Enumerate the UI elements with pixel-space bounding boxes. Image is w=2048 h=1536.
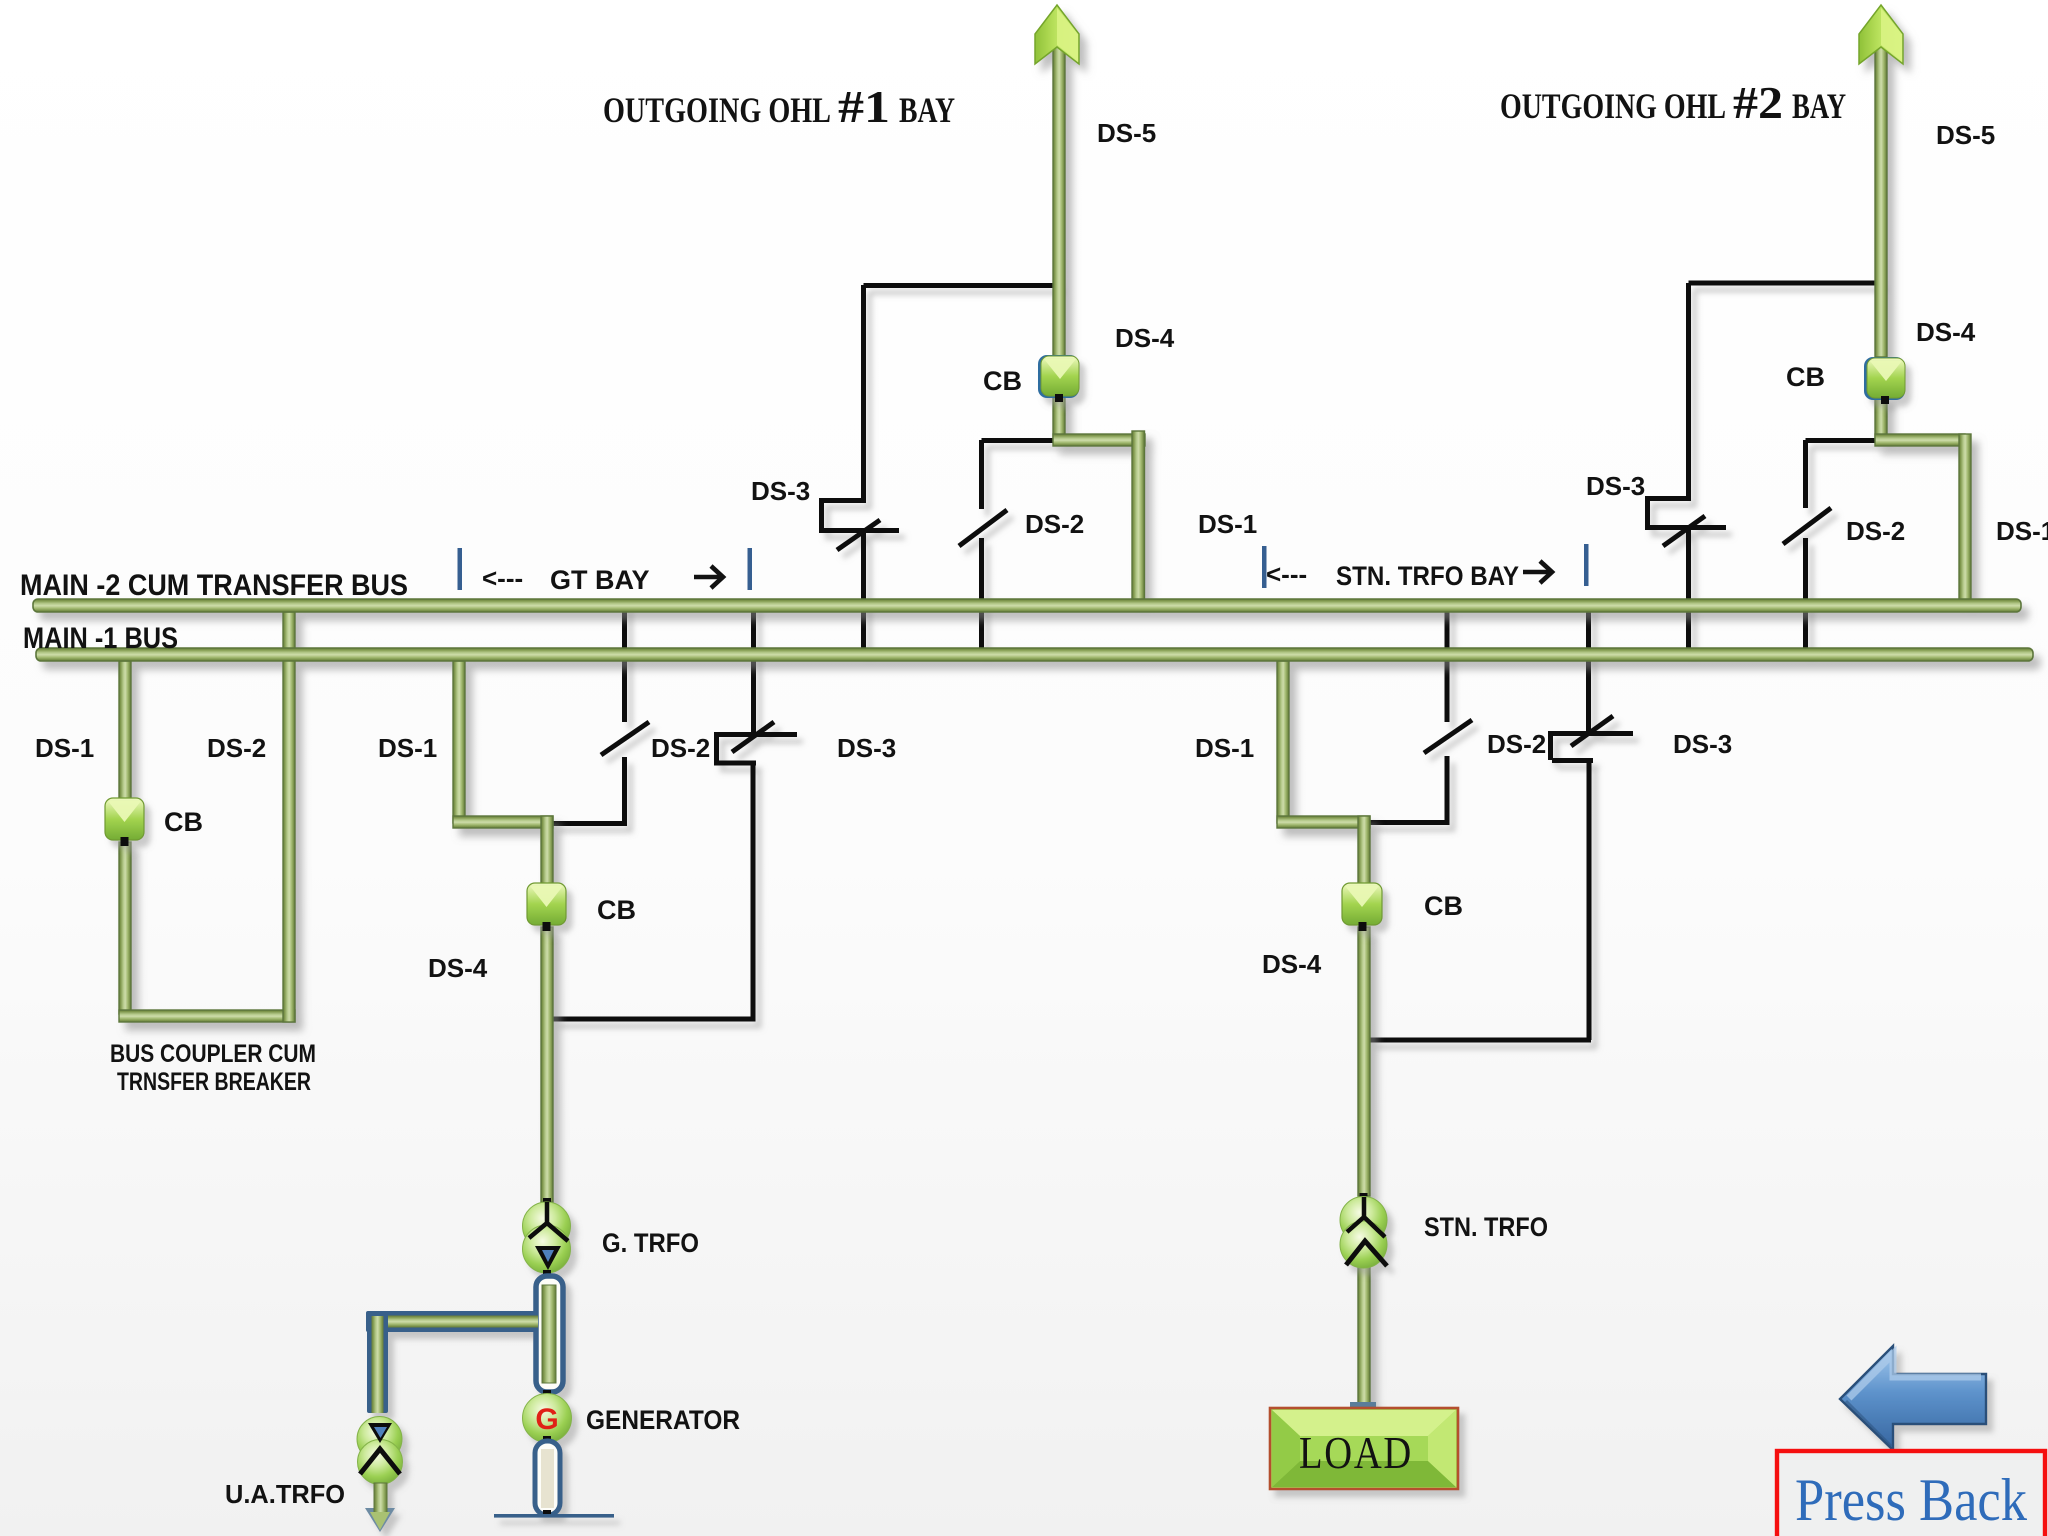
svg-text:MAIN -1 BUS: MAIN -1 BUS	[23, 622, 178, 655]
wire elbow (OHL no.2 bay)	[1875, 434, 1965, 446]
wire DS-1 riser (GT bay)	[453, 661, 465, 823]
svg-text:#1: #1	[838, 81, 890, 132]
svg-text:CB: CB	[1424, 891, 1463, 921]
node LOAD connection	[1350, 1402, 1376, 1409]
svg-text:U.A.TRFO: U.A.TRFO	[225, 1479, 345, 1509]
title OUTGOING OHL no.1 BAY	[603, 81, 955, 132]
wire bottom link (bus coupler bay)	[119, 1010, 295, 1022]
generator earth line	[494, 1514, 614, 1518]
svg-text:Press Back: Press Back	[1795, 1467, 2027, 1533]
disconnector DS-2 (OHL no.2 bay)	[1783, 440, 1877, 651]
wire elbow (OHL no.1 bay)	[1053, 434, 1145, 446]
svg-text:OUTGOING OHL: OUTGOING OHL	[603, 90, 831, 130]
wire elbow (GT bay)	[453, 816, 553, 828]
wire DS-1 riser (bus coupler bay)	[119, 661, 131, 801]
svg-text:DS-1: DS-1	[35, 733, 94, 763]
wire OHL line shaft (OHL no.2 bay)	[1875, 46, 1887, 357]
svg-text:BUS COUPLER CUM: BUS COUPLER CUM	[110, 1040, 316, 1068]
label STN TRFO bay arrow right	[1523, 561, 1552, 583]
svg-text:DS-4: DS-4	[1115, 323, 1175, 353]
circuit breaker CB (STN TRFO bay)	[1342, 883, 1382, 931]
svg-text:DS-1: DS-1	[378, 733, 437, 763]
wire DS-1 riser (OHL no.2 bay)	[1959, 434, 1971, 606]
svg-text:STN. TRFO: STN. TRFO	[1424, 1212, 1548, 1242]
svg-text:DS-2: DS-2	[1025, 509, 1084, 539]
circuit breaker CB (bus coupler bay)	[105, 798, 144, 846]
svg-text:DS-3: DS-3	[1586, 471, 1645, 501]
wire U.A. tap vertical	[367, 1311, 388, 1413]
arrow press back (blue block arrow)	[1840, 1346, 1986, 1450]
svg-text:LOAD: LOAD	[1299, 1428, 1413, 1478]
svg-text:DS-5: DS-5	[1097, 118, 1156, 148]
circuit breaker CB (GT bay)	[527, 883, 566, 931]
svg-text:DS-1: DS-1	[1195, 733, 1254, 763]
wire transformer to LOAD (STN TRFO bay)	[1358, 1266, 1370, 1410]
svg-text:<---: <---	[482, 563, 523, 593]
LOAD box	[1270, 1408, 1458, 1489]
svg-text:DS-3: DS-3	[1673, 729, 1732, 759]
node GT bay right marker	[748, 548, 753, 590]
svg-text:DS-4: DS-4	[1262, 949, 1322, 979]
wire below CB (OHL no.1 bay)	[1053, 396, 1065, 441]
wire DS-4 below CB (STN TRFO bay)	[1358, 927, 1370, 1196]
wire below CB (OHL no.2 bay)	[1875, 396, 1887, 439]
svg-text:DS-2: DS-2	[651, 733, 710, 763]
svg-text:DS-1: DS-1	[1996, 516, 2048, 546]
wire OHL line shaft (OHL no.1 bay)	[1053, 46, 1065, 357]
arrowhead DS-5 (OHL no.1 bay)	[1035, 5, 1079, 64]
generator neutral capsule	[535, 1436, 560, 1517]
transformer U.A.TRFO secondary winding	[358, 1423, 403, 1485]
svg-text:DS-4: DS-4	[428, 953, 488, 983]
bus MAIN-2 CUM TRANSFER BUS	[33, 599, 2021, 612]
disconnector DS-2 (OHL no.1 bay)	[959, 440, 1055, 651]
wire DS-1 riser (STN TRFO bay)	[1277, 661, 1289, 823]
svg-text:CB: CB	[164, 807, 203, 837]
svg-text:BAY: BAY	[1792, 86, 1846, 126]
wire DS-4 above CB (GT bay)	[541, 816, 553, 886]
wire elbow (STN TRFO bay)	[1277, 816, 1370, 828]
wire below CB (bus coupler bay)	[119, 842, 131, 1014]
arrowhead DS-5 (OHL no.2 bay)	[1859, 5, 1903, 64]
button Press Back	[1777, 1451, 2045, 1536]
node STN TRFO bay right marker	[1584, 544, 1589, 586]
label GT bay arrow right	[694, 566, 723, 588]
wire DS-2 riser (bus coupler bay)	[283, 612, 295, 1022]
svg-text:DS-2: DS-2	[1487, 729, 1546, 759]
transformer G.TRFO primary winding	[523, 1198, 571, 1250]
wire U.A. tap horizontal	[366, 1311, 538, 1332]
svg-text:GT BAY: GT BAY	[550, 565, 650, 595]
transformer STN.TRFO secondary winding	[1340, 1197, 1387, 1268]
disconnector DS-3 (GT bay)	[553, 604, 797, 1019]
svg-text:DS-4: DS-4	[1916, 317, 1976, 347]
svg-text:GENERATOR: GENERATOR	[586, 1405, 740, 1435]
svg-text:CB: CB	[1786, 362, 1825, 392]
svg-text:G. TRFO: G. TRFO	[602, 1228, 699, 1258]
svg-text:STN. TRFO BAY: STN. TRFO BAY	[1336, 561, 1519, 591]
svg-text:BAY: BAY	[899, 90, 955, 130]
circuit breaker CB (OHL no.1 bay)	[1038, 355, 1079, 402]
svg-text:CB: CB	[983, 366, 1022, 396]
svg-text:DS-3: DS-3	[751, 476, 810, 506]
bus MAIN-1 BUS	[36, 648, 2033, 661]
disconnector DS-2 (STN TRFO bay)	[1370, 604, 1472, 825]
circuit breaker CB (OHL no.2 bay)	[1864, 357, 1905, 404]
wire DS-4 above CB (STN TRFO bay)	[1358, 816, 1370, 886]
svg-text:OUTGOING OHL: OUTGOING OHL	[1500, 86, 1726, 126]
generator bus duct	[536, 1270, 563, 1392]
wire DS-1 riser (OHL no.1 bay)	[1132, 431, 1145, 606]
transformer U.A.TRFO primary winding (delta)	[357, 1417, 402, 1462]
transformer G.TRFO secondary winding (delta)	[523, 1202, 571, 1273]
svg-text:DS-3: DS-3	[837, 733, 896, 763]
title OUTGOING OHL no.2 BAY	[1500, 77, 1846, 128]
svg-text:TRNSFER BREAKER: TRNSFER BREAKER	[117, 1068, 311, 1096]
disconnector DS-3 (STN TRFO bay)	[1370, 604, 1633, 1040]
svg-text:MAIN -2 CUM TRANSFER BUS: MAIN -2 CUM TRANSFER BUS	[20, 569, 408, 602]
transformer STN.TRFO primary winding	[1340, 1193, 1387, 1244]
svg-text:DS-2: DS-2	[1846, 516, 1905, 546]
svg-text:DS-5: DS-5	[1936, 120, 1995, 150]
svg-text:G: G	[535, 1403, 558, 1436]
generator G	[523, 1390, 572, 1443]
svg-text:DS-2: DS-2	[207, 733, 266, 763]
disconnector DS-2 (GT bay)	[553, 604, 649, 826]
node GT bay left marker	[458, 548, 463, 590]
disconnector DS-3 (OHL no.1 bay)	[819, 285, 1059, 651]
arrow U.A.TRFO feeder down	[365, 1483, 395, 1532]
svg-text:CB: CB	[597, 895, 636, 925]
disconnector DS-3 (OHL no.2 bay)	[1645, 283, 1881, 651]
svg-text:DS-1: DS-1	[1198, 509, 1257, 539]
svg-text:#2: #2	[1733, 77, 1783, 128]
wire DS-4 below CB (GT bay)	[541, 927, 553, 1202]
node STN TRFO bay left marker	[1262, 546, 1267, 588]
svg-text:<---: <---	[1266, 559, 1307, 589]
